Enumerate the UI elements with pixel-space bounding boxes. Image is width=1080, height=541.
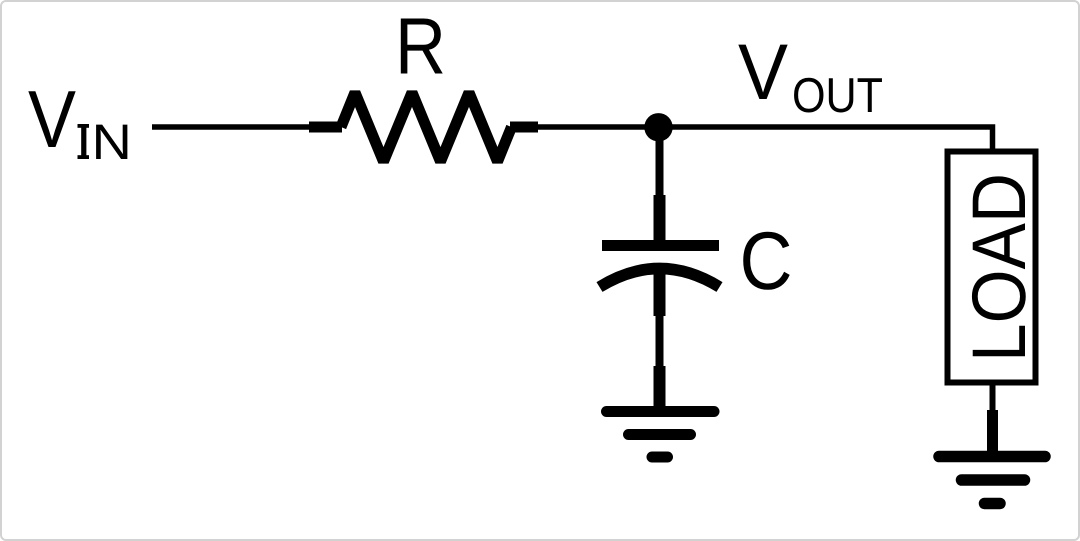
svg-text:V: V [28, 75, 76, 165]
top plate [602, 240, 719, 251]
svg-text:R: R [395, 2, 446, 91]
right lead [510, 122, 538, 133]
ground (below load) [939, 410, 1045, 504]
svg-text:LOAD: LOAD [957, 173, 1042, 362]
node junction dot [644, 113, 672, 141]
label VOUT [738, 27, 883, 123]
wire load to ground [990, 383, 996, 414]
left lead [309, 122, 342, 133]
svg-text:C: C [740, 216, 793, 307]
zigzag body [341, 93, 512, 162]
wire node down to capacitor [656, 138, 664, 200]
top terminal stub [654, 195, 666, 247]
capacitor C [600, 195, 720, 316]
curved bottom plate [600, 269, 720, 288]
load resistor box [948, 152, 1036, 383]
wire resistor to node to corner [530, 127, 993, 150]
wire capacitor to ground [656, 314, 664, 372]
wire VIN to resistor [152, 124, 322, 130]
resistor R1 [309, 93, 538, 162]
svg-text:IN: IN [76, 114, 132, 170]
bottom terminal stub [654, 272, 666, 316]
svg-text:OUT: OUT [792, 69, 883, 123]
label VIN [28, 75, 132, 170]
svg-text:V: V [738, 27, 788, 116]
ground (below capacitor) [607, 366, 715, 457]
